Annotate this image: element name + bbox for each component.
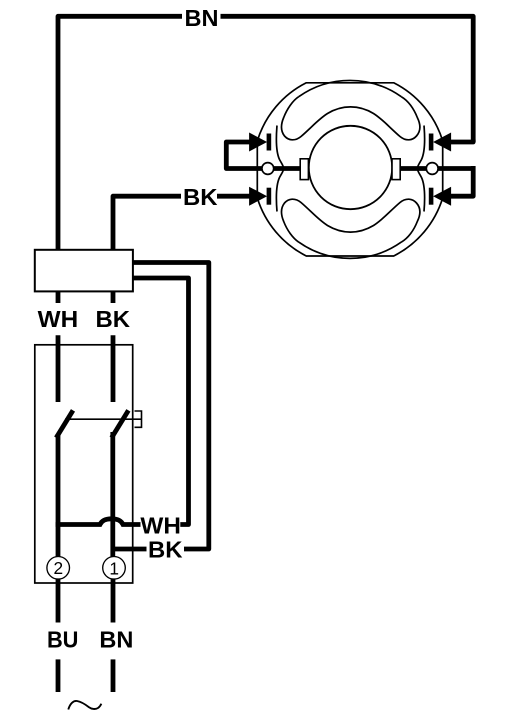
- rotor (armature) circle: [309, 126, 392, 209]
- wire loop lower-right (terminal to lower brush arrow): [451, 166, 473, 196]
- WH line with hump jump: [56, 519, 141, 525]
- brush block right: [392, 159, 400, 180]
- arrow upper-left: [249, 133, 267, 152]
- terminal circle right: [426, 163, 438, 175]
- wire below right switch: [110, 432, 115, 562]
- arrow lower-left: [249, 187, 267, 206]
- wire from block right to BK return column: [133, 263, 209, 550]
- arrow upper-right: [433, 133, 451, 152]
- pole outline left waist: [276, 126, 283, 212]
- field winding top (banana): [282, 97, 420, 140]
- terminal circle left: [262, 163, 274, 175]
- brush line left (thick): [226, 142, 301, 169]
- switch lever right: [112, 410, 129, 437]
- terminal circle 2: [47, 557, 70, 580]
- wire BK to motor: left segment with corner down to connector: [113, 196, 181, 250]
- brush terminal bar upper-right: [429, 134, 434, 151]
- AC tilde symbol: [68, 701, 101, 710]
- wire into switch 2 (left): [56, 335, 61, 402]
- motor housing inner arc top: [299, 80, 402, 96]
- connector block: [35, 250, 133, 292]
- wire loop right: BN down to upper-right arrow: [451, 140, 473, 142]
- brush line right (thick): [399, 166, 473, 171]
- wire BN top horizontal right segment: [221, 16, 474, 142]
- terminal circle 1: [103, 557, 126, 580]
- motor housing inner arc bottom: [299, 242, 402, 258]
- wire below box right: [111, 579, 116, 623]
- brush terminal bar upper-left: [267, 134, 272, 151]
- svg-text:WH: WH: [140, 513, 181, 539]
- wire BN top horizontal left segment: [58, 16, 182, 250]
- pole outline right waist: [417, 126, 424, 212]
- field winding bottom (banana): [282, 199, 420, 242]
- BK bottom line left segment: [113, 547, 147, 552]
- wire stub below block left (WH): [56, 291, 61, 303]
- supply stub left: [56, 659, 61, 692]
- wire BK to motor: right segment toward lower-left arrow: [217, 194, 251, 199]
- wire into switch 1 (right): [111, 335, 116, 402]
- wire stub below block right (BK): [111, 291, 116, 303]
- svg-text:1: 1: [109, 559, 119, 579]
- brush terminal bar lower-right: [429, 188, 434, 205]
- wire from block right to WH return column: [133, 278, 189, 525]
- svg-text:BK: BK: [183, 184, 218, 210]
- svg-text:WH: WH: [38, 306, 79, 332]
- svg-text:BK: BK: [148, 536, 183, 562]
- actuator bracket: [135, 411, 142, 427]
- switch box: [35, 345, 133, 583]
- mechanical linkage line: [65, 418, 142, 420]
- supply stub right: [111, 659, 116, 692]
- svg-text:BU: BU: [47, 627, 79, 653]
- svg-text:BN: BN: [185, 5, 219, 31]
- motor housing squircle (flatted r97 profile): [257, 83, 442, 256]
- svg-text:2: 2: [53, 558, 63, 578]
- brush terminal bar lower-left: [267, 188, 272, 205]
- brush block left: [300, 159, 308, 180]
- svg-text:BN: BN: [99, 627, 133, 653]
- switch lever left: [56, 410, 73, 437]
- wire below box left: [56, 579, 61, 623]
- wire below left switch: [56, 434, 61, 562]
- arrow lower-right: [433, 187, 451, 206]
- svg-text:BK: BK: [96, 306, 131, 332]
